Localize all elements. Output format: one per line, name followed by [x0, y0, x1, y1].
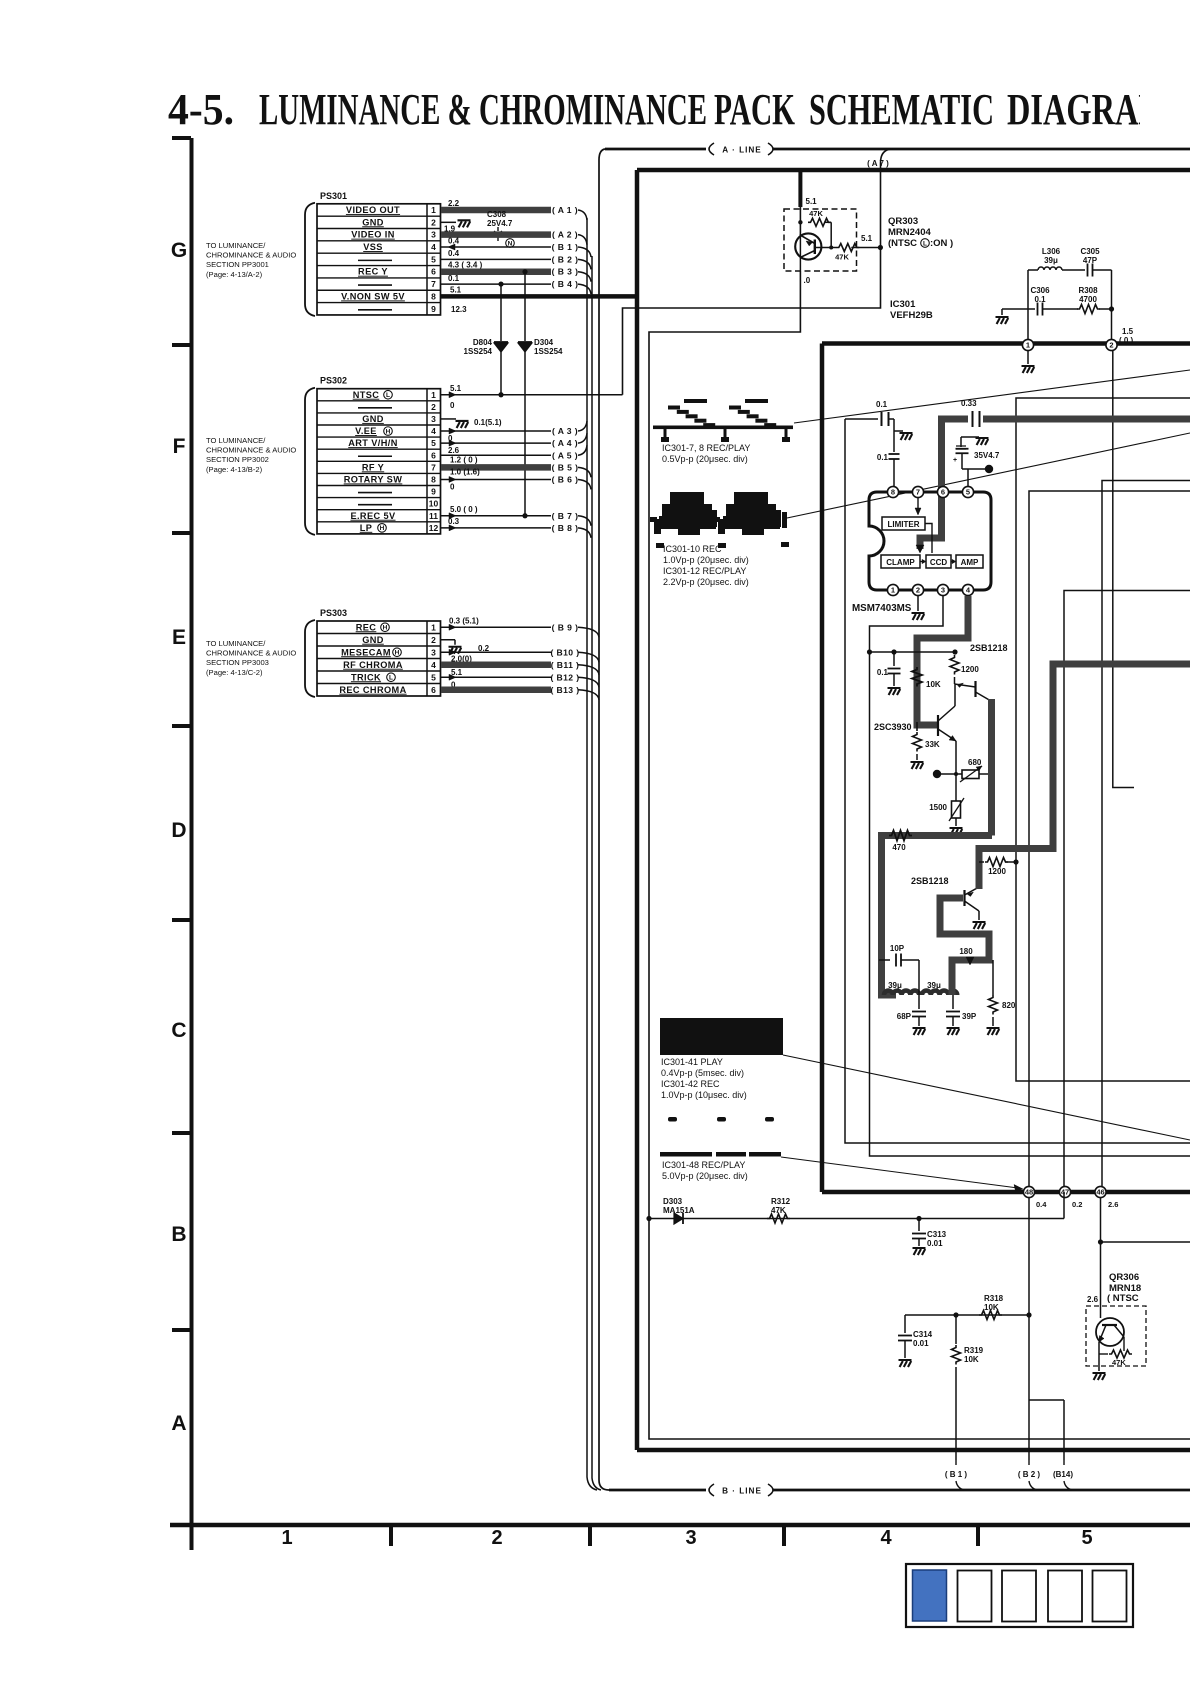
resistor R312 47K: [767, 1214, 790, 1223]
svg-text:C305: C305: [1080, 247, 1100, 256]
svg-text:( A 2 ): ( A 2 ): [552, 230, 578, 240]
resistor 470 on shaded bus: [889, 831, 912, 841]
pointer line waveform1: [794, 370, 1190, 423]
frame B right: [1029, 491, 1190, 1186]
pointer line waveform4 to pin 48: [781, 1157, 1018, 1188]
svg-text:2: 2: [491, 1527, 502, 1549]
ground under pin 1: [1027, 351, 1029, 364]
svg-text:VIDEO OUT: VIDEO OUT: [346, 205, 400, 215]
svg-text:TO LUMINANCE/: TO LUMINANCE/: [206, 241, 266, 250]
svg-text:.0: .0: [804, 276, 811, 285]
junction D304 bottom: [522, 513, 527, 518]
svg-text:35V4.7: 35V4.7: [974, 451, 1000, 460]
svg-text:(Page: 4-13/B-2): (Page: 4-13/B-2): [206, 465, 263, 474]
wire PS302-5 ART: [441, 442, 551, 444]
wire 2SB1218-2 collector to ground: [978, 911, 980, 920]
wire PS301-8 V.NON SW 5V (thick bus to main block): [441, 294, 637, 299]
svg-text:D: D: [171, 819, 186, 842]
nav square 2: [958, 1571, 992, 1622]
svg-text:( A 4 ): ( A 4 ): [552, 438, 578, 448]
ruler tick x784: [782, 1525, 786, 1546]
capacitor 10P: [879, 959, 890, 961]
PS302 pin 2 row: [358, 407, 392, 409]
svg-text:5.1: 5.1: [861, 234, 873, 243]
svg-text:VEFH29B: VEFH29B: [890, 310, 933, 321]
transistor 2SC3930: [937, 715, 939, 736]
wire cap to pin8 with ground tap: [893, 419, 895, 452]
QR303 dashed box: [784, 209, 857, 271]
ruler tick y1330: [172, 1328, 191, 1332]
junction D804 top: [498, 281, 503, 286]
resistor 47K (QR303 output): [815, 247, 837, 249]
svg-text:5.0 ( 0 ): 5.0 ( 0 ): [450, 505, 478, 514]
navigation bar: [906, 1564, 1133, 1627]
svg-text:25V4.7: 25V4.7: [487, 219, 513, 228]
resistor 1200 second: [979, 861, 984, 863]
wire QR right stub: [1101, 1241, 1190, 1243]
capacitor 0.1 top: [877, 413, 892, 426]
svg-text:0.1: 0.1: [877, 668, 889, 677]
svg-text:( NTSC: ( NTSC: [1107, 1293, 1139, 1304]
PS302 pin 10 row: [358, 504, 392, 506]
test point dot 2: [933, 770, 941, 778]
svg-text:L306: L306: [1042, 247, 1061, 256]
pin 2: [912, 584, 923, 595]
svg-text:1: 1: [281, 1527, 292, 1549]
svg-text:0.2: 0.2: [1072, 1200, 1082, 1209]
ground QR306: [1093, 1373, 1106, 1380]
svg-text:L: L: [923, 240, 927, 247]
svg-text:D804: D804: [473, 338, 493, 347]
inner thick block border (IC301): [822, 344, 1190, 1193]
svg-text:IC301: IC301: [890, 299, 916, 310]
svg-text:0.01: 0.01: [927, 1239, 943, 1248]
capacitor 0.33 on bus: [968, 413, 983, 426]
QR306 dashed box: [1086, 1306, 1146, 1366]
svg-text:E.REC 5V: E.REC 5V: [350, 511, 396, 521]
capacitor 0.1 left: [889, 453, 900, 455]
svg-text:A · LINE: A · LINE: [722, 146, 762, 155]
svg-text:SECTION PP3001: SECTION PP3001: [206, 260, 269, 269]
svg-text:3: 3: [431, 647, 436, 657]
block LIMITER: [882, 517, 925, 530]
wire bundle vertical 2: [592, 256, 601, 1490]
ground pin 2: [917, 596, 919, 611]
pointer line waveform2: [787, 433, 1190, 518]
svg-text:GND: GND: [362, 635, 384, 645]
svg-text:RF CHROMA: RF CHROMA: [343, 660, 403, 670]
svg-text:9: 9: [431, 487, 436, 497]
arrow CCD-AMP: [951, 561, 955, 563]
svg-text:ROTARY SW: ROTARY SW: [344, 474, 403, 484]
svg-text:10K: 10K: [964, 1355, 979, 1364]
wire PS303-4 RF CHROMA (thick): [441, 662, 551, 669]
svg-text:VSS: VSS: [363, 242, 383, 252]
capacitor 68P: [918, 995, 920, 1009]
svg-text:C: C: [171, 1019, 186, 1042]
block AMP: [956, 555, 983, 568]
svg-text:( A 7 ): ( A 7 ): [867, 159, 889, 168]
test point dot: [985, 465, 993, 473]
shaded bus right of inductors: [940, 898, 989, 995]
svg-text:1SS254: 1SS254: [534, 347, 563, 356]
svg-text:6: 6: [941, 488, 945, 497]
node R318 rail: [905, 1314, 1029, 1316]
svg-text:0.1: 0.1: [877, 453, 889, 462]
wire PS301-5: [441, 258, 551, 260]
svg-text:2SC3930: 2SC3930: [874, 722, 912, 732]
svg-text:6: 6: [431, 685, 436, 695]
ruler tick y345: [172, 343, 191, 347]
pin 47: [1059, 1186, 1070, 1197]
waveform dots: [668, 1117, 677, 1122]
transistor QR306: [1096, 1318, 1124, 1346]
wire pin47 drop: [1063, 1192, 1065, 1219]
PS302 brace: [305, 388, 315, 535]
PS301 pin 9 row: [358, 309, 392, 311]
svg-text:1200: 1200: [961, 665, 979, 674]
svg-text:10P: 10P: [890, 944, 905, 953]
wire PS303-5 TRICK: [441, 676, 551, 678]
PS302 pin 9 row: [358, 492, 392, 494]
svg-text:39μ: 39μ: [888, 981, 902, 990]
NTSC line to A7: [623, 163, 881, 395]
svg-text:L: L: [389, 675, 393, 682]
shaded bus collector right: [988, 699, 995, 836]
svg-text:68P: 68P: [897, 1012, 912, 1021]
svg-text:TO LUMINANCE/: TO LUMINANCE/: [206, 436, 266, 445]
resistor R308 4700: [1077, 305, 1100, 314]
svg-text:47K: 47K: [1112, 1358, 1126, 1367]
frame C right: [1102, 481, 1190, 1187]
pin 3: [937, 584, 948, 595]
nav square 1 active: [913, 1570, 947, 1621]
svg-text:5.1: 5.1: [450, 384, 462, 393]
resistor 47K (QR303 base resistor): [798, 220, 802, 224]
wire 35V node: [962, 468, 989, 470]
svg-text:(Page: 4-13/A-2): (Page: 4-13/A-2): [206, 270, 263, 279]
svg-text::ON ): :ON ): [930, 238, 953, 249]
svg-text:AMP: AMP: [961, 558, 979, 567]
ground 820: [987, 1028, 1000, 1035]
svg-text:10K: 10K: [926, 680, 941, 689]
wire PS301-2 GND stub: [441, 221, 456, 223]
svg-text:ART V/H/N: ART V/H/N: [348, 438, 398, 448]
inner wire frame from QR303 emitter: [649, 271, 1190, 1439]
svg-text:7: 7: [431, 279, 436, 289]
pointer line waveform3: [783, 1055, 1190, 1140]
main block outer border: [637, 170, 1190, 1450]
wire PS301-7: [441, 283, 551, 285]
svg-text:8: 8: [891, 488, 895, 497]
diode D304 1SS254: [524, 272, 526, 341]
svg-text:V.NON SW 5V: V.NON SW 5V: [341, 291, 405, 301]
svg-text:0.1(5.1): 0.1(5.1): [474, 418, 502, 427]
svg-text:R318: R318: [984, 1294, 1004, 1303]
svg-text:( B 1 ): ( B 1 ): [552, 242, 579, 252]
svg-text:2.2Vp-p (20μsec. div): 2.2Vp-p (20μsec. div): [663, 577, 749, 587]
svg-text:4: 4: [431, 426, 436, 436]
svg-text:2: 2: [431, 217, 436, 227]
frame E right: [845, 419, 1190, 1143]
pin 7: [912, 486, 923, 497]
svg-text:180: 180: [959, 947, 973, 956]
svg-text:1.0 (1.6): 1.0 (1.6): [450, 467, 480, 476]
wire PS303-1 REC: [441, 626, 551, 628]
svg-text:IC301-12 REC/PLAY: IC301-12 REC/PLAY: [663, 566, 746, 576]
pin 1: [887, 584, 898, 595]
svg-text:1.0Vp-p (20μsec. div): 1.0Vp-p (20μsec. div): [663, 555, 749, 565]
svg-text:LUMINANCE & CHROMINANCE: LUMINANCE & CHROMINANCE: [259, 85, 707, 134]
svg-text:1200: 1200: [988, 867, 1006, 876]
svg-text:4: 4: [880, 1527, 892, 1549]
wire PS301-6 REC Y (thick): [441, 268, 551, 275]
svg-text:GND: GND: [362, 414, 384, 424]
svg-text:3: 3: [941, 586, 945, 595]
wire D303/R312 row: [649, 1218, 1064, 1220]
resistor 1200 (2SB1218 collector load): [950, 655, 959, 675]
svg-text:LP: LP: [360, 523, 373, 533]
svg-text:5: 5: [431, 254, 436, 264]
svg-text:47K: 47K: [809, 209, 823, 218]
svg-text:( B 2 ): ( B 2 ): [552, 254, 579, 264]
wire PS302-6: [441, 454, 551, 456]
shaded bus pin4 to 2SC3930 base: [917, 596, 968, 725]
resistor 820: [992, 960, 994, 995]
capacitor C313 0.01: [918, 1219, 920, 1232]
waveform IC301-48 trace: [660, 1152, 712, 1157]
svg-text:IC301-7, 8 REC/PLAY: IC301-7, 8 REC/PLAY: [662, 443, 750, 453]
svg-text:C306: C306: [1030, 286, 1050, 295]
connector PS301 body: [317, 204, 441, 315]
svg-text:47: 47: [1061, 1188, 1069, 1197]
svg-text:1.0Vp-p (10μsec. div): 1.0Vp-p (10μsec. div): [661, 1090, 747, 1100]
svg-text:CLAMP: CLAMP: [886, 558, 915, 567]
svg-text:3: 3: [685, 1527, 696, 1549]
svg-text:+: +: [953, 457, 957, 464]
svg-text:QR303: QR303: [888, 216, 918, 227]
wire PS301-1 VIDEO OUT (thick): [441, 207, 551, 214]
ground PS303-2: [449, 647, 462, 654]
svg-text:0.2: 0.2: [478, 644, 490, 653]
svg-text:12.3: 12.3: [451, 305, 467, 314]
svg-text:0.1: 0.1: [876, 400, 888, 409]
svg-text:( B12 ): ( B12 ): [550, 672, 579, 682]
IC MSM7403MS body: [869, 492, 991, 590]
waveform IC301-10/12 blobs: [670, 492, 704, 505]
svg-text:5: 5: [966, 488, 970, 497]
svg-text:46: 46: [1096, 1188, 1104, 1197]
PS301 pin 7 row: [358, 284, 392, 286]
svg-text:2.6: 2.6: [1087, 1295, 1099, 1304]
svg-text:0: 0: [450, 482, 455, 491]
svg-text:TO LUMINANCE/: TO LUMINANCE/: [206, 639, 266, 648]
wire PS301-3 VIDEO IN (thick): [441, 231, 551, 238]
svg-text:B: B: [171, 1223, 186, 1246]
svg-text:IC301-41 PLAY: IC301-41 PLAY: [661, 1057, 723, 1067]
svg-text:REC Y: REC Y: [358, 267, 388, 277]
wire PS302-12 LP: [441, 527, 551, 529]
svg-text:8: 8: [431, 474, 436, 484]
PS301 brace: [305, 203, 315, 316]
QR303 emitter down to .0: [799, 234, 801, 271]
svg-text:5: 5: [431, 438, 436, 448]
wire PS303-2 GND stub: [441, 639, 455, 641]
svg-text:L: L: [386, 392, 390, 399]
svg-text:6: 6: [431, 267, 436, 277]
svg-text:R308: R308: [1078, 286, 1098, 295]
svg-text:CHROMINANCE & AUDIO: CHROMINANCE & AUDIO: [206, 446, 296, 455]
svg-text:( B 6 ): ( B 6 ): [552, 474, 579, 484]
svg-text:4-5.: 4-5.: [168, 85, 234, 134]
connector PS302 body: [317, 389, 441, 534]
svg-text:G: G: [171, 239, 187, 262]
ground C306 left: [1001, 309, 1003, 315]
svg-text:2SB1218: 2SB1218: [911, 876, 949, 886]
frame A right: [1016, 398, 1190, 1081]
svg-text:10: 10: [429, 499, 439, 509]
svg-text:6: 6: [431, 450, 436, 460]
wire PS303-3 MESECAM: [441, 651, 551, 653]
pin IC301-1: [1022, 339, 1033, 350]
svg-text:0.4: 0.4: [1036, 1200, 1047, 1209]
svg-text:( B 5 ): ( B 5 ): [552, 462, 579, 472]
svg-text:SECTION PP3002: SECTION PP3002: [206, 455, 269, 464]
svg-text:2.2: 2.2: [448, 199, 460, 208]
resistor R318 10K: [979, 1311, 1002, 1320]
svg-text:( B10 ): ( B10 ): [550, 647, 579, 657]
svg-text:0.3 (5.1): 0.3 (5.1): [449, 616, 479, 625]
svg-text:IC301-48 REC/PLAY: IC301-48 REC/PLAY: [662, 1160, 745, 1170]
svg-text:A: A: [171, 1412, 186, 1435]
svg-text:(B14): (B14): [1053, 1470, 1073, 1479]
wire PS303-6 REC CHROMA (thick): [441, 687, 551, 694]
svg-text:3: 3: [431, 230, 436, 240]
ruler tick y1133: [172, 1131, 191, 1135]
resistor 10K on shaded bus: [912, 667, 922, 687]
svg-text:0.4Vp-p (5msec. div): 0.4Vp-p (5msec. div): [661, 1068, 744, 1078]
svg-text:IC301-42 REC: IC301-42 REC: [661, 1079, 720, 1089]
svg-text:0.1: 0.1: [1034, 295, 1046, 304]
PS302 pin 6 row: [358, 455, 392, 457]
wire PS302-3 GND stub: [441, 418, 456, 420]
svg-text:V.EE: V.EE: [355, 426, 377, 436]
svg-text:( A 5 ): ( A 5 ): [552, 450, 578, 460]
resistor 47K QR306: [1099, 1353, 1108, 1355]
wire B2-B14 jog: [1029, 1399, 1064, 1401]
svg-text:( B11 ): ( B11 ): [551, 660, 580, 670]
svg-text:2.6: 2.6: [1108, 1200, 1118, 1209]
resistor 33K: [916, 722, 918, 731]
svg-text:2: 2: [431, 635, 436, 645]
ruler tick y920: [172, 918, 191, 922]
capacitor C314 0.01: [904, 1315, 906, 1333]
wire bundle vertical 3 (A/B line riser): [598, 160, 600, 1480]
svg-text:47K: 47K: [835, 253, 849, 262]
node N mark: [506, 239, 515, 248]
svg-text:H: H: [386, 428, 391, 435]
svg-text:47P: 47P: [1083, 256, 1098, 265]
pin IC301-2: [1106, 339, 1117, 350]
svg-text:RF Y: RF Y: [362, 462, 384, 472]
svg-text:1500: 1500: [929, 803, 947, 812]
svg-text:5.1: 5.1: [451, 668, 463, 677]
ground C313: [913, 1248, 926, 1255]
rheostat 680: [962, 770, 979, 779]
wire dot to 680: [937, 773, 962, 775]
svg-text:( B 9 ): ( B 9 ): [552, 622, 579, 632]
svg-text:( B 3 ): ( B 3 ): [552, 267, 579, 277]
wire bundle vertical 1: [587, 218, 597, 1490]
ground PS302-3: [456, 421, 469, 428]
svg-text:0.01: 0.01: [913, 1339, 929, 1348]
svg-text:QR306: QR306: [1109, 1272, 1139, 1283]
svg-text:5: 5: [431, 672, 436, 682]
svg-text:PS301: PS301: [320, 191, 347, 201]
svg-text:3: 3: [431, 414, 436, 424]
junction C313: [916, 1216, 921, 1221]
pin 5: [962, 486, 973, 497]
svg-text:PS302: PS302: [320, 376, 347, 386]
pin 48: [1023, 1186, 1034, 1197]
svg-text:H: H: [395, 650, 400, 657]
A-LINE bus: [599, 149, 605, 160]
svg-text:1: 1: [431, 390, 436, 400]
wire pin46 drop: [1100, 1197, 1102, 1318]
svg-text:0.4: 0.4: [448, 249, 460, 258]
rheostat 1500: [955, 799, 957, 801]
ruler tick x391: [389, 1525, 393, 1546]
capacitor C305 47P: [1087, 264, 1089, 277]
svg-text:39μ: 39μ: [1044, 256, 1058, 265]
PS303 brace: [305, 620, 315, 697]
svg-text:2: 2: [1109, 341, 1113, 350]
transistor QR303 feed from top: [798, 170, 802, 207]
bottom grid ruler line: [170, 1523, 1190, 1528]
svg-text:REC: REC: [356, 622, 377, 632]
frame D right: [1064, 591, 1190, 1187]
svg-text:7: 7: [431, 462, 436, 472]
wire C306 R308 row: [1002, 308, 1035, 310]
ruler tick top: [172, 136, 191, 140]
svg-text:1SS254: 1SS254: [464, 347, 493, 356]
svg-text:SCHEMATIC: SCHEMATIC: [809, 85, 994, 134]
B-LINE bus: [599, 1480, 609, 1490]
wire 2SC3930 emitter down: [955, 741, 957, 799]
svg-text:N: N: [508, 240, 513, 247]
svg-text:VIDEO IN: VIDEO IN: [351, 230, 395, 240]
svg-text:2: 2: [431, 402, 436, 412]
svg-text:0.1: 0.1: [448, 274, 460, 283]
ground 0.1 bias: [888, 688, 901, 695]
nav square 4: [1048, 1571, 1082, 1622]
svg-text:5.1: 5.1: [450, 285, 462, 294]
ground 68P: [913, 1028, 926, 1035]
svg-text:( B 4 ): ( B 4 ): [552, 279, 579, 289]
svg-text:( A 3 ): ( A 3 ): [552, 426, 578, 436]
svg-text:(NTSC: (NTSC: [888, 238, 917, 249]
transistor QR303 symbol: [795, 233, 821, 259]
svg-text:( B 7 ): ( B 7 ): [552, 511, 579, 521]
svg-text:H: H: [383, 625, 388, 632]
svg-text:0.3: 0.3: [448, 517, 460, 526]
svg-text:1: 1: [1026, 341, 1030, 350]
ground PS301-2: [458, 220, 471, 227]
PS301 pin 5 row: [358, 259, 392, 261]
pin 4: [962, 584, 973, 595]
svg-text:2SB1218: 2SB1218: [970, 643, 1008, 653]
wire pin2 drop: [1113, 351, 1134, 788]
